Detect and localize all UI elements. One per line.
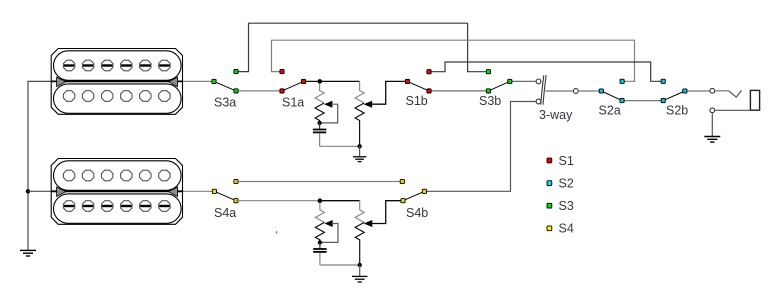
legend S4 marker [547,226,552,231]
node tone 2 pot bottom junction [318,240,322,244]
switch S1b [405,70,488,93]
pickup P1 plain pole pieces [63,91,170,102]
pickup P1 right lead triangle [169,77,178,87]
node junction pickup P2 to ground bus [26,189,30,193]
node tone 1 pot bottom junction [317,121,321,125]
pickup P2 right lead triangle [169,187,178,197]
svg-text:S3b: S3b [479,94,501,108]
node junction tone2/volume2 tap [318,198,323,203]
switch S2b [661,79,710,103]
output jack [710,88,760,112]
pickup P1 (neck humbucker) [51,49,182,115]
wire S1b upper throw to S2b upper throw [429,62,663,81]
wire through pickup P1 (coil link line) [51,80,182,82]
svg-text:S3a: S3a [214,95,236,109]
wire S4a lever line to pots [236,200,320,202]
ground (left bus) [20,250,36,256]
pickup P2 pole slots [64,205,170,207]
svg-text:S3: S3 [559,199,574,213]
switch S3b [486,70,536,93]
capacitor tone 1 [313,123,326,146]
potentiometer tone 2 [315,203,338,243]
ground (top section) [353,146,366,161]
svg-text:S2b: S2b [666,104,688,118]
svg-text:S4b: S4b [406,206,428,220]
switch S4b [401,189,427,203]
wire S3a upper throw to S3b upper throw [236,23,488,71]
node ground junction (top section) [357,144,361,148]
node ground junction (bottom section) [358,263,362,267]
potentiometer tone 1 [315,84,338,124]
pickup P1 slotted pole pieces [63,60,170,71]
svg-text:S4: S4 [559,222,574,236]
wire S1a upper throw to S2a upper throw [272,40,635,81]
svg-text:S2: S2 [559,176,574,190]
wire pickup P2 stub to bus [28,190,51,192]
wire 3-way bottom terminal to S4b [424,102,536,192]
svg-text:S4a: S4a [214,206,236,220]
wire volume 2 wiper to S4b [371,201,403,224]
switch S4a [212,179,238,202]
wire S4a upper throw to S4b upper throw [236,181,402,183]
stray mark [276,231,277,233]
wire jack sleeve to ground [711,113,713,136]
wire pickup P1 to switch S3a [183,80,215,82]
switch S2a [599,79,663,103]
wire tone1 cap to ground junction [320,145,360,147]
potentiometer volume 2 [355,201,372,265]
pickup P1 pole slots [64,64,170,66]
pickup P2 left lead triangle [57,187,66,197]
wire pickup P2 to switch S4a [183,190,215,192]
pickup P1 left lead triangle [57,77,66,87]
ground (output jack) [704,137,720,143]
wire 3-way common to S2a [573,89,601,94]
node junction tone1/volume1 tap [318,79,323,84]
wire volume 1 wiper to S1b [371,81,408,104]
svg-text:S1b: S1b [406,94,428,108]
legend S3 marker [547,203,552,208]
wire tone2 cap to ground junction [320,264,360,266]
capacitor tone 2 [313,243,326,266]
potentiometer volume 1 [355,81,372,146]
svg-text:S1a: S1a [282,95,304,109]
3-way switch [536,75,573,105]
wire pickup P1 output to left ground bus [28,81,51,249]
node S4b upper throw terminal [400,179,404,183]
svg-text:S1: S1 [559,154,574,168]
legend S2 marker [547,181,552,186]
switch S3a [212,70,282,94]
pickup P2 (bridge humbucker) [51,159,182,225]
pickup P2 slotted pole pieces [63,201,170,212]
wire junction to volume 2 top [320,200,360,202]
switch S1a [280,70,360,94]
wire through pickup P2 (coil link line) [51,190,182,192]
pickup P2 plain pole pieces [63,170,170,181]
svg-text:3-way: 3-way [539,108,573,122]
ground (bottom section) [352,265,367,282]
svg-text:S2a: S2a [599,104,621,118]
legend S1 marker [547,158,552,163]
